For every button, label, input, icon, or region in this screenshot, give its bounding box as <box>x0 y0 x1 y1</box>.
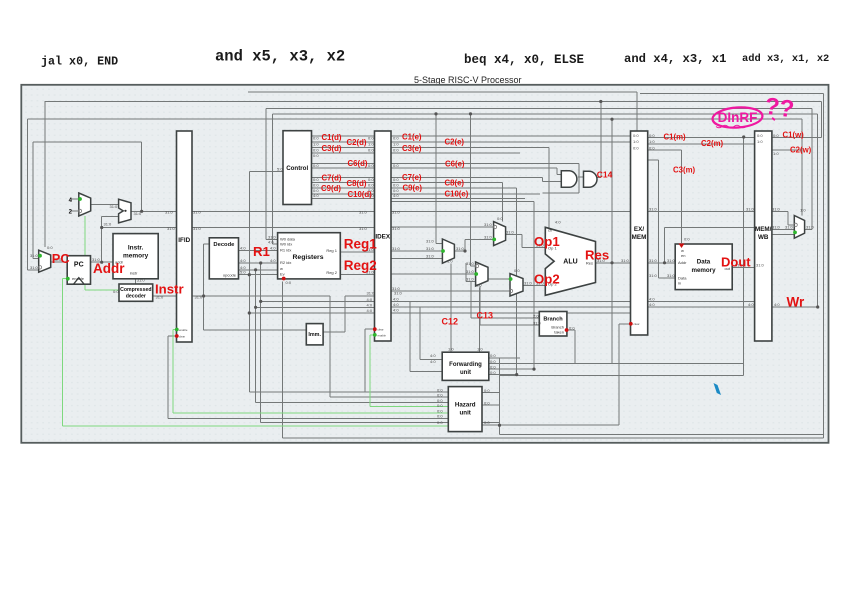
mux op1 select <box>494 222 506 246</box>
svg-text:C9(e): C9(e) <box>403 184 423 193</box>
wire: C11 row <box>391 198 525 200</box>
wire <box>419 307 421 360</box>
svg-text:beq x4, x0, ELSE: beq x4, x0, ELSE <box>464 53 584 67</box>
svg-text:DInRF: DInRF <box>718 110 758 125</box>
wire: long middle row <box>460 363 744 365</box>
wire junction at 255.6,307.3 <box>254 306 257 309</box>
wire: C3(m) row <box>648 149 682 151</box>
wire: rs2 idx row <box>391 306 631 308</box>
svg-text:C1(e): C1(e) <box>402 133 422 142</box>
pink annotation: DInRF circled <box>712 93 796 130</box>
wire: PC+4 loop row to PC mux input 1 <box>33 141 142 143</box>
wire: Wr row out <box>772 306 818 308</box>
blue pen cursor mark <box>714 383 722 395</box>
svg-text:Wr: Wr <box>787 295 805 310</box>
wire junction at 499.5,425.2 <box>498 424 501 427</box>
svg-text:C3(e): C3(e) <box>402 144 422 153</box>
wire: IDEX clear stub <box>365 328 375 330</box>
svg-text:C1(w): C1(w) <box>783 130 805 139</box>
svg-text:C1(d): C1(d) <box>322 133 342 142</box>
svg-text:Addr: Addr <box>678 260 687 265</box>
svg-text:31:0: 31:0 <box>426 254 435 259</box>
svg-text:Instr: Instr <box>155 282 184 297</box>
wire: adder input 2 <box>102 216 119 218</box>
main panel <box>21 85 828 443</box>
wire: branch in2 <box>480 324 539 326</box>
wire: C2(e) row to EX/MEM <box>391 141 631 143</box>
wire: forward select to mux A <box>450 264 452 353</box>
wire junction at 664.5,262.8 <box>663 261 666 264</box>
wire: outer top row right <box>640 93 823 95</box>
wire: branch taken out <box>567 329 575 331</box>
hazard unit <box>448 387 482 432</box>
svg-text:31:0: 31:0 <box>772 225 781 230</box>
svg-text:4:0: 4:0 <box>393 296 399 301</box>
wire: hazard in <box>330 396 448 398</box>
svg-text:31:0: 31:0 <box>466 277 475 282</box>
wire: Data memory out to MEM/WB <box>732 266 754 268</box>
svg-text:in: in <box>678 281 681 286</box>
wire <box>465 263 467 282</box>
svg-text:4:0: 4:0 <box>430 353 436 358</box>
svg-text:4:0: 4:0 <box>270 246 276 251</box>
svg-text:add x3, x1, x2: add x3, x1, x2 <box>742 53 829 65</box>
wire junction at 470.5,113.9 <box>469 112 472 115</box>
svg-text:0:0: 0:0 <box>393 177 399 182</box>
wire: mux C out to mux D <box>488 278 510 280</box>
svg-text:memory: memory <box>691 267 716 274</box>
svg-text:0:0: 0:0 <box>684 237 690 242</box>
svg-text:IFID: IFID <box>178 237 190 244</box>
svg-text:Op1: Op1 <box>534 234 560 249</box>
wire: const 4 stub <box>71 198 79 200</box>
wire: adder out (PC+4) into IFID <box>131 210 177 212</box>
branch unit <box>539 312 567 337</box>
svg-text:Hazard: Hazard <box>455 402 476 409</box>
wire: instr mem out to compressed decoder <box>135 279 137 284</box>
wire: AND1 out to AND2 <box>578 176 584 178</box>
svg-text:0:0: 0:0 <box>437 420 443 425</box>
wire <box>167 336 169 418</box>
green enable pin dot at 374.8,334.9 <box>373 333 377 337</box>
svg-text:31:0: 31:0 <box>137 277 146 282</box>
svg-text:31:0: 31:0 <box>667 273 676 278</box>
svg-text:C12: C12 <box>442 317 459 327</box>
svg-text:31:0: 31:0 <box>426 246 435 251</box>
wire: drop into EX/MEM top <box>636 92 638 131</box>
wire: C1(m) row <box>648 137 755 139</box>
svg-text:0:0: 0:0 <box>313 147 319 152</box>
wire: WB mux output feedback row <box>266 107 812 109</box>
svg-text:31:0: 31:0 <box>165 210 174 215</box>
svg-text:0:0: 0:0 <box>437 403 443 408</box>
green wire: long bottom enable row to hazard <box>62 425 448 427</box>
svg-text:Reg 2: Reg 2 <box>326 270 337 275</box>
wire: C row upper <box>391 201 534 203</box>
register PC <box>67 256 90 285</box>
wire junction at 101.7,227.5 <box>100 226 103 229</box>
svg-text:5-Stage RISC-V Processor: 5-Stage RISC-V Processor <box>414 75 522 85</box>
svg-text:0:0: 0:0 <box>437 393 443 398</box>
svg-text:0:0: 0:0 <box>773 133 779 138</box>
svg-text:and x5, x3, x2: and x5, x3, x2 <box>215 48 345 66</box>
green wire: below PC box <box>84 284 86 290</box>
wire: mux A in3 <box>391 258 442 260</box>
wire: instr field down to hazard <box>329 296 331 397</box>
svg-text:clear: clear <box>179 334 185 338</box>
wire <box>248 275 250 392</box>
wire junction at 612,119.2 <box>610 118 613 121</box>
wire: WB mux in1 <box>788 224 794 226</box>
svg-text:0:0: 0:0 <box>484 388 490 393</box>
green enable pin dot at 40,255.7 <box>38 254 42 258</box>
wire: into Registers W0 idx pin <box>273 243 278 245</box>
svg-text:31:0: 31:0 <box>746 206 755 211</box>
svg-text:w: w <box>280 266 283 271</box>
svg-text:31:0: 31:0 <box>456 246 465 251</box>
svg-text:31:0: 31:0 <box>484 222 493 227</box>
wire: PC-mux select / write-enable top row <box>45 101 822 103</box>
wire: instruction row from IFID <box>192 295 330 297</box>
svg-text:31:0: 31:0 <box>30 265 39 270</box>
wire: imm out <box>323 331 345 333</box>
svg-text:31:0: 31:0 <box>110 204 119 209</box>
wire: rd idx row into IDEX <box>249 312 374 314</box>
decode unit <box>209 238 238 279</box>
svg-text:instr: instr <box>130 271 138 276</box>
svg-text:C2(m): C2(m) <box>701 139 723 148</box>
svg-text:C13: C13 <box>477 311 494 321</box>
wire: imm row to mux D in2 <box>391 290 510 292</box>
wire: WB forward to mux A <box>435 114 437 244</box>
wire junction at 249.3,274.7 <box>248 273 251 276</box>
svg-text:31:0: 31:0 <box>772 206 781 211</box>
svg-text:1:0: 1:0 <box>313 142 319 147</box>
red clear pin dot at 566.6,330 <box>565 328 569 332</box>
wire: into Control <box>249 171 283 173</box>
svg-text:4:0: 4:0 <box>240 246 246 251</box>
wire: adder input 2 vertical <box>101 217 103 228</box>
wire: forwarding select vertical <box>533 202 535 370</box>
svg-text:4:0: 4:0 <box>748 302 754 307</box>
wire: C14 vertical from AND output <box>600 102 602 178</box>
wire: hazard out vertical <box>499 358 501 435</box>
svg-text:0:0: 0:0 <box>313 163 319 168</box>
wire: into Decode <box>204 243 210 245</box>
svg-text:31:0: 31:0 <box>785 225 794 230</box>
wire: into ALU Op1 <box>522 246 545 248</box>
ALU <box>545 227 595 295</box>
svg-text:C9(d): C9(d) <box>321 184 341 193</box>
svg-text:memory: memory <box>123 253 149 260</box>
svg-text:4:0: 4:0 <box>270 258 276 263</box>
wire <box>578 164 580 193</box>
wire: control signal row (d) <box>312 167 375 169</box>
svg-text:31:0: 31:0 <box>649 258 658 263</box>
wire: rd idx EXMEM to MEMWB <box>648 300 755 302</box>
svg-text:0:0: 0:0 <box>649 133 655 138</box>
wire: rs1 idx IDEX to EXMEM <box>391 300 631 302</box>
svg-text:C7(e): C7(e) <box>402 173 422 182</box>
svg-text:R1 idx: R1 idx <box>280 248 291 253</box>
green wire: IDEX enable to hazard <box>370 406 449 408</box>
wire: ALU result bypass row over Data memory <box>648 210 755 212</box>
wire: row under forwarding <box>500 374 744 376</box>
wire: mux C in3 <box>466 281 476 283</box>
svg-text:en: en <box>681 253 685 258</box>
pipeline register MEM/WB <box>755 131 772 341</box>
svg-text:clear: clear <box>378 328 384 332</box>
wire junction at 249.3,313 <box>248 311 251 314</box>
svg-text:0:0: 0:0 <box>313 177 319 182</box>
svg-text:jal x0, END: jal x0, END <box>41 55 118 69</box>
svg-text:31:0: 31:0 <box>466 261 475 266</box>
wire: PC+4 row in EX <box>391 210 631 212</box>
wire: res to MEM/WB <box>665 227 755 229</box>
svg-text:enable: enable <box>378 333 387 337</box>
wire: into hazard unit pin1 <box>249 391 448 393</box>
enable/clear pin dots <box>38 197 797 338</box>
wire: top feedback row to EX/MEM <box>248 91 637 93</box>
AND gate 1 (branch) <box>561 171 577 188</box>
wire: PC mux out to PC <box>51 261 67 263</box>
svg-text:4:0: 4:0 <box>649 296 655 301</box>
wire: PC row into IFID <box>102 227 177 229</box>
svg-text:0:0: 0:0 <box>313 136 319 141</box>
mux writeback <box>794 216 804 239</box>
wire: forwarding out stub <box>488 363 520 365</box>
svg-text:Ev: Ev <box>280 271 285 276</box>
svg-text:PC: PC <box>74 262 84 269</box>
svg-text:0:0: 0:0 <box>393 147 399 152</box>
wire <box>364 329 366 392</box>
green wire: const-mux select upper part <box>84 216 86 256</box>
svg-text:Data: Data <box>697 259 711 266</box>
svg-text:C8(d): C8(d) <box>347 179 367 188</box>
wire: PC+4 row IFID to IDEX <box>192 210 375 212</box>
wire: C3(e) row to ALU ctl <box>391 146 549 148</box>
svg-text:C7(d): C7(d) <box>322 174 342 183</box>
svg-text:31:0: 31:0 <box>533 320 542 325</box>
svg-text:ctl: ctl <box>548 228 552 233</box>
svg-text:0:0: 0:0 <box>393 136 399 141</box>
wire: forwarding out row <box>488 368 534 370</box>
wire: forwarding out stub <box>488 357 520 359</box>
svg-text:MEM/: MEM/ <box>755 226 772 233</box>
svg-text:2:0: 2:0 <box>533 313 539 318</box>
svg-text:C8(e): C8(e) <box>445 179 465 188</box>
svg-text:IDEX: IDEX <box>375 234 390 241</box>
wire: PC mux in2 stub <box>28 269 39 271</box>
svg-text:Op2: Op2 <box>534 271 560 286</box>
wire <box>409 301 411 371</box>
wire: control signal row (d) <box>312 135 375 137</box>
wire <box>470 282 472 319</box>
svg-text:ALU: ALU <box>563 259 577 266</box>
wire: control signal row (d) <box>312 163 375 165</box>
svg-text:C10(e): C10(e) <box>445 190 469 199</box>
wire: ALU res to Data memory Addr <box>648 262 676 264</box>
svg-text:31:0: 31:0 <box>394 291 403 296</box>
svg-text:31:0: 31:0 <box>806 225 815 230</box>
green wire: IFID enable row to hazard <box>173 412 448 414</box>
wire: store data to Data memory <box>658 277 675 279</box>
mux op2 select <box>510 274 523 296</box>
svg-text:0:0: 0:0 <box>368 183 374 188</box>
wire: Reg2 to mux C in2 <box>391 273 476 275</box>
wire: const 2 stub <box>71 210 79 212</box>
svg-text:C3(m): C3(m) <box>673 166 695 175</box>
wire: staircase under AND <box>543 192 579 194</box>
wire: WB forward to mux C <box>470 114 472 266</box>
wire junction at 255.6,269.8 <box>254 268 257 271</box>
wire: branch in1 <box>471 317 539 319</box>
svg-text:0:0: 0:0 <box>368 136 374 141</box>
wire: registers clk/Ev vertical from bottom row <box>282 282 284 438</box>
svg-text:1:0: 1:0 <box>447 259 453 264</box>
control unit <box>283 131 312 205</box>
wire: WB mux out vertical <box>811 108 813 229</box>
svg-text:31:0: 31:0 <box>392 210 401 215</box>
wire: hazard in from IFID clear <box>168 417 448 419</box>
svg-text:0:0: 0:0 <box>497 216 503 221</box>
svg-text:0:0: 0:0 <box>484 420 490 425</box>
wire junction at 743.7,137 <box>742 135 745 138</box>
svg-text:31:0: 31:0 <box>167 226 176 231</box>
wire <box>479 286 481 325</box>
wire: into Imm unit <box>204 329 307 331</box>
wire: left vertical to PC mux select <box>44 102 46 248</box>
wire: C10(e) row <box>391 193 540 195</box>
green enable pin dot at 476.2,274 <box>474 272 478 276</box>
wire: PC+4 loop vertical <box>141 142 143 211</box>
wire: control signal row (d) <box>312 146 375 148</box>
svg-text:Compressed: Compressed <box>120 287 151 293</box>
svg-text:C10(d): C10(d) <box>348 190 373 199</box>
wire: forwarding in1 <box>420 359 442 361</box>
wire: hazard to EXMEM clear <box>500 424 620 426</box>
svg-text:0:0: 0:0 <box>393 163 399 168</box>
wire: C1(w) vertical <box>820 102 822 138</box>
wire: PC mux in1 stub <box>33 257 39 259</box>
wire: C2(w) row to WB mux select <box>772 149 802 151</box>
svg-text:0:0: 0:0 <box>490 353 496 358</box>
wire: rs2 idx row into IDEX <box>256 306 375 308</box>
svg-text:C2(w): C2(w) <box>790 145 812 154</box>
wire: mux B select vertical <box>501 183 503 222</box>
svg-text:31:0: 31:0 <box>134 211 143 216</box>
wire: into Registers W0 data pin <box>266 238 277 240</box>
svg-text:0:0: 0:0 <box>633 133 639 138</box>
svg-text:4:0: 4:0 <box>367 308 373 313</box>
data memory <box>675 244 732 290</box>
svg-text:31:0: 31:0 <box>649 206 658 211</box>
wire <box>787 211 789 225</box>
wire junction at 600.8,101.5 <box>599 100 602 103</box>
green wire: IDEX enable stub <box>370 334 375 336</box>
svg-text:C3(d): C3(d) <box>322 144 342 153</box>
red clear pin dot at 283.7,278.5 <box>282 277 286 281</box>
pipeline register IFID <box>177 131 193 342</box>
register file <box>278 233 341 279</box>
svg-text:1:0: 1:0 <box>368 142 374 147</box>
svg-text:4:0: 4:0 <box>367 302 373 307</box>
pipeline register EX/MEM <box>631 131 648 335</box>
wire: C8(e) row to op1-mux select <box>391 182 502 184</box>
svg-text:0:0: 0:0 <box>514 268 520 273</box>
wire: mux A out <box>454 250 465 252</box>
svg-text:Dout: Dout <box>721 254 751 269</box>
svg-text:0:0: 0:0 <box>649 146 655 151</box>
svg-text:Reg1: Reg1 <box>344 237 378 252</box>
wire: const mux out to adder <box>91 204 118 206</box>
wire: control signal row (d) <box>312 198 375 200</box>
svg-text:0:0: 0:0 <box>368 177 374 182</box>
green enable pin dot at 510.6,279 <box>509 277 513 281</box>
svg-text:31:0: 31:0 <box>484 234 493 239</box>
wire: opcode row to Registers Ev pin <box>239 274 278 276</box>
svg-text:0:0: 0:0 <box>569 325 575 330</box>
wire: control signal row (d) <box>312 141 375 143</box>
wire: bottom row to hazard area <box>261 422 500 424</box>
svg-text:1:0: 1:0 <box>477 347 483 352</box>
wire: into hazard unit <box>256 402 449 404</box>
svg-text:5:0: 5:0 <box>240 270 246 275</box>
wire: C3(m) down to Data memory <box>681 150 683 243</box>
instruction memory <box>113 234 158 279</box>
wire: Wr row <box>648 306 755 308</box>
wire: AND in1 <box>557 174 562 176</box>
svg-text:31:0: 31:0 <box>367 291 376 296</box>
red clear pin dot at 374.8,329.2 <box>373 327 377 331</box>
wire: WB mux out <box>805 229 812 231</box>
wire: IFID clear stub <box>168 335 177 337</box>
wire: branch target vertical <box>611 119 613 363</box>
immediate unit <box>306 324 323 345</box>
svg-text:1:0: 1:0 <box>633 139 639 144</box>
wire junction at 465,251 <box>463 249 466 252</box>
wire: mux C input 1 <box>471 265 476 267</box>
mux forward B <box>476 262 488 286</box>
svg-text:C1(m): C1(m) <box>664 133 686 142</box>
wire: bottom outer row <box>283 437 824 439</box>
svg-text:0:0: 0:0 <box>286 280 292 285</box>
svg-text:Res: Res <box>585 247 609 262</box>
svg-text:4:0: 4:0 <box>393 308 399 313</box>
svg-text:enable: enable <box>179 328 188 332</box>
wire <box>464 239 466 251</box>
wire: imm into IDEX <box>345 295 375 297</box>
wire: EXMEM clear stub <box>619 323 631 325</box>
svg-text:0:0: 0:0 <box>757 133 763 138</box>
svg-text:Control: Control <box>286 165 308 172</box>
wire: control signal row (d) <box>312 177 375 179</box>
svg-text:4:0: 4:0 <box>367 297 373 302</box>
wire: W0 idx drop <box>272 114 274 244</box>
wire: EXMEM clear drop <box>618 324 620 425</box>
svg-text:31:0: 31:0 <box>426 239 435 244</box>
svg-text:Instr.: Instr. <box>128 245 144 252</box>
svg-text:EX/: EX/ <box>634 226 644 233</box>
wire: hazard out2 <box>482 404 500 406</box>
green wire: to Compressed decoder <box>85 289 119 291</box>
green wire: IDEX enable vertical <box>369 335 371 407</box>
pipeline register IDEX <box>375 131 392 341</box>
wire: WB mux in2 <box>772 229 794 231</box>
green enable pin dot at 176.8,329.5 <box>175 328 179 332</box>
wire junction at 141.7,211.3 <box>140 210 143 213</box>
svg-text:0:0: 0:0 <box>368 147 374 152</box>
